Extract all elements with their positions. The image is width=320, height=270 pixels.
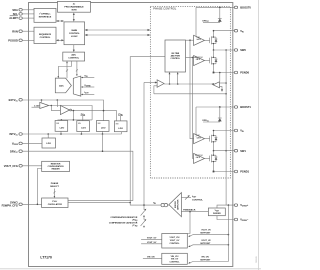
- wire SW sense column vertical: [225, 50, 227, 205]
- node VIN_ON net label: [143, 256, 162, 258]
- svg-text:SCL: SCL: [13, 12, 19, 16]
- wire feedback from error amp to VOUT divider: [181, 211, 208, 213]
- wire bottom gate signal down to phase1 driver: [193, 57, 194, 158]
- pin PGOOD: [8, 38, 22, 42]
- transistor bottom MOSFET M1B: [210, 151, 218, 172]
- switch compensation capacitor CTH: [141, 216, 147, 229]
- pin SW1: [234, 149, 246, 153]
- wire feedback branch down to VOUT UV/OV control: [187, 212, 190, 234]
- label VOUT_OV setpoint: [200, 230, 211, 235]
- svg-text:VIN_OV: VIN_OV: [171, 259, 179, 261]
- wire buffer input: [51, 106, 60, 111]
- junction LDO3 output and drop to DRVCC line: [102, 133, 104, 135]
- junction VIN rail phase 1: [213, 130, 215, 132]
- wire DRVCC to bootstrap diode anode: [203, 21, 220, 23]
- wire enable drop to EN rail: [72, 111, 74, 120]
- wire tap into 2.5V LDO: [47, 134, 49, 138]
- svg-text:PROGRAMMABLE: PROGRAMMABLE: [64, 6, 84, 9]
- svg-text:DIVIDER: DIVIDER: [213, 213, 221, 215]
- svg-text:GATE: GATE: [196, 136, 202, 139]
- wire on-time control feedback vertical: [130, 57, 165, 205]
- wire on-time output to top gate driver phase0: [186, 39, 194, 41]
- wire VDD25 to LDO: [22, 142, 42, 144]
- svg-text:RUN: RUN: [12, 29, 18, 33]
- wire PGOOD to sequence control: [22, 39, 34, 41]
- pin ALERT (active low): [9, 16, 22, 20]
- junction DRVCC at LDO3 drop: [102, 150, 104, 152]
- svg-text:VOUT_OV: VOUT_OV: [170, 240, 180, 242]
- svg-text:7170 BD: 7170 BD: [256, 256, 258, 263]
- svg-text:CONTROL: CONTROL: [170, 262, 181, 264]
- wire VOUT_UV setpoint into control block: [188, 245, 228, 247]
- junction buffer output branch: [73, 110, 75, 112]
- svg-text:LT7170: LT7170: [40, 256, 52, 260]
- wire VOUT divider bottom to VOSNS- pin: [217, 216, 234, 220]
- wire buffer output to current sense amp: [164, 83, 213, 85]
- svg-text:ADC: ADC: [59, 85, 64, 88]
- pin EXTVCC: [9, 98, 23, 103]
- switch compensation resistor RTH: [141, 205, 147, 216]
- op-amp buffer EXTVCC: [60, 105, 69, 114]
- svg-text:BOOST0: BOOST0: [240, 6, 251, 10]
- junction EN rail b1: [61, 119, 63, 121]
- svg-text:CONTROL: CONTROL: [69, 33, 80, 35]
- label VOUT_UV setpoint: [200, 240, 211, 245]
- pin PGND1: [234, 170, 249, 174]
- block on-time and PWM control: [165, 40, 186, 72]
- pin SW0: [234, 48, 246, 52]
- junction LDO2 output: [81, 133, 83, 135]
- svg-text:VIN_ON: VIN_ON: [201, 256, 209, 258]
- block 2x programmable NVM: [58, 1, 91, 12]
- wire current sense feedback into on-time control right arrow: [177, 72, 179, 84]
- wire SYNC to PLL oscillator: [22, 203, 41, 205]
- wire buffer lower input wrap: [154, 86, 157, 94]
- block resistor configuration reader: [42, 161, 70, 171]
- block VOUT UV/OV control: [162, 234, 188, 249]
- wire EN stub into LDO2: [78, 119, 80, 122]
- junction VIN rail phase 0: [213, 30, 215, 32]
- block ADC control: [63, 52, 85, 61]
- wire top gate drive to MOSFET gate: [205, 39, 210, 41]
- page edge line right: [258, 0, 260, 270]
- node VOUT_UV net label: [141, 242, 162, 244]
- wire bottom gate drive to MOSFET gate phase 1: [205, 157, 210, 159]
- junction EXTVCC at comparator: [41, 99, 43, 101]
- pin RUN: [12, 29, 22, 33]
- wire VOUT divider top to VOSNS+ pin: [217, 205, 234, 208]
- pin VOUT_CFG: [4, 164, 23, 168]
- wire ALERT to I2C interface: [22, 17, 34, 19]
- wire comparator minus input reference: [32, 106, 40, 108]
- wire SW1 rail: [214, 150, 235, 152]
- transistor top MOSFET M1T: [210, 131, 218, 151]
- svg-text:LDO: LDO: [46, 143, 51, 145]
- op-amp EXTVCC comparator: [40, 102, 49, 108]
- wire SDA to I2C interface: [22, 9, 34, 11]
- op-amp top gate driver phase 1: [194, 134, 205, 144]
- block PLL oscillator: [42, 198, 68, 208]
- junction bottom gate distribution: [192, 57, 194, 59]
- junction SW1 at MOSFETs: [213, 150, 215, 152]
- block EN LDO 3: [96, 121, 109, 132]
- svg-text:PGND1: PGND1: [240, 170, 249, 174]
- wire DRVCC line across to oscillator column: [22, 151, 133, 200]
- wire VOUT_OV setpoint into control block: [188, 235, 228, 237]
- wire PLL output to compensation node column: [68, 202, 130, 204]
- wire arrow main control to ADC control: [73, 45, 75, 52]
- junction SYNC branch: [37, 204, 39, 206]
- label PVIN above LDO4: [118, 114, 123, 121]
- block I2C/PMBus interface: [34, 8, 56, 22]
- junction sense line a: [169, 83, 171, 85]
- junction EXTVCC at buffer column: [57, 99, 59, 101]
- svg-text:PGND0: PGND0: [240, 71, 249, 75]
- svg-text:INTERFACE: INTERFACE: [39, 16, 52, 19]
- svg-text:VIN_UV/: VIN_UV/: [171, 256, 179, 258]
- svg-text:LDO: LDO: [81, 128, 86, 130]
- svg-text:GATE: GATE: [196, 38, 202, 41]
- pin PGND0: [234, 71, 249, 75]
- wire LDO1 output stub: [60, 131, 62, 134]
- wire ADC control down to ADC converter: [58, 61, 72, 78]
- pin BOOST0: [234, 6, 251, 10]
- wire EXTVCC rail: [22, 100, 103, 121]
- svg-text:LOGIC: LOGIC: [71, 36, 78, 38]
- block EN LDO 1: [55, 121, 68, 132]
- pin VDD25: [12, 142, 22, 147]
- op-amp top gate driver phase 0: [194, 35, 205, 45]
- svg-text:CONTROL: CONTROL: [192, 200, 203, 202]
- svg-text:PLL/: PLL/: [52, 201, 57, 203]
- wire mux input VIN with label: [81, 75, 94, 78]
- svg-text:READER: READER: [52, 167, 61, 170]
- svg-text:FSWPH_CFG: FSWPH_CFG: [2, 204, 18, 208]
- junction setpoint bus UV: [228, 244, 230, 246]
- svg-text:CONTROL: CONTROL: [171, 58, 181, 60]
- wire EN stub into LDO1: [60, 119, 62, 122]
- junction PGND0 tap: [219, 72, 221, 74]
- junction SW1 at sense column: [225, 150, 227, 152]
- svg-text:SETPOINT: SETPOINT: [200, 233, 211, 235]
- wire BOOST1 supply to top gate driver: [195, 107, 197, 135]
- wire sense amp lower input with down arrow: [220, 87, 224, 92]
- wire VIN rail phase 0: [214, 30, 235, 32]
- block LDO 2.5V: [42, 138, 56, 148]
- wire comparator output to EN chain: [49, 106, 92, 120]
- wire PGND1 rail: [214, 171, 235, 173]
- junction EN rail b2: [73, 119, 75, 121]
- op-amp error amplifier: [169, 193, 182, 217]
- svg-text:ALERT: ALERT: [9, 16, 18, 20]
- wire top gate signal down to phase1 driver: [190, 40, 194, 139]
- wire DRVCC to bootstrap diode anode: [203, 121, 220, 123]
- wire comparator plus input from EXTVCC: [41, 100, 43, 102]
- svg-text:VOUT_UV: VOUT_UV: [201, 240, 211, 242]
- svg-text:COMPENSATION RESISTOR: COMPENSATION RESISTOR: [110, 216, 137, 219]
- node VOUT_OV net label: [141, 237, 162, 239]
- wire VIN_ON setpoint into control block: [188, 262, 228, 264]
- wire INTVCC rail with LDO output stubs: [22, 132, 121, 134]
- svg-text:PGOOD: PGOOD: [8, 38, 18, 42]
- wire long arrow phase control to main control upper (bidirectional): [85, 29, 151, 31]
- chip outline LT7170: [29, 3, 233, 267]
- svg-text:LDO: LDO: [101, 128, 106, 130]
- op-amp ADC converter pentagon: [55, 78, 71, 93]
- pin INTVCC: [10, 132, 23, 137]
- page edge line bottom: [0, 268, 261, 270]
- pin VOSNS-: [234, 218, 248, 223]
- pin SDA: [12, 8, 22, 12]
- svg-text:OSCILLATOR: OSCILLATOR: [48, 203, 62, 206]
- wire SYNC branch to resistor configuration reader: [37, 169, 41, 205]
- wire on-time output to bottom gate driver phase0: [186, 57, 198, 59]
- label VIN_ON setpoint: [200, 256, 211, 261]
- junction PLL output at vertical: [129, 202, 131, 204]
- op-amp current sense amplifier: [213, 82, 220, 88]
- op-amp bottom gate driver phase 0: [194, 56, 205, 66]
- wire PGND0 tap into sense amp: [219, 73, 221, 82]
- pin VIN phase1: [234, 129, 244, 134]
- wire bottom gate drive to MOSFET gate phase 0: [205, 60, 210, 62]
- label phase select: [50, 182, 59, 188]
- junction sense return at SW column: [225, 93, 227, 95]
- junction BOOST1 rail at bootstrap diode: [219, 106, 221, 108]
- svg-text:LDO: LDO: [60, 127, 65, 129]
- wire SW0 rail: [214, 49, 235, 51]
- svg-text:LDO: LDO: [118, 128, 123, 130]
- wire top gate drive to MOSFET gate: [205, 138, 210, 140]
- mux trapezoid for ADC inputs: [73, 76, 81, 96]
- svg-text:BOOST1: BOOST1: [240, 105, 251, 109]
- junction feedback branch: [189, 211, 191, 213]
- wire ADC control select to mux: [76, 61, 78, 76]
- pin VOSNS+: [234, 203, 248, 208]
- svg-text:I²C/PMBus: I²C/PMBus: [40, 13, 52, 16]
- wire sense amp upper input from SW column: [220, 82, 227, 84]
- svg-text:VOUT_UV/: VOUT_UV/: [169, 237, 179, 239]
- wire current sense feedback into on-time control left arrow: [169, 72, 171, 84]
- junction ITH node: [143, 204, 145, 206]
- junction sense line b: [177, 83, 179, 85]
- svg-text:CONTROL: CONTROL: [40, 37, 51, 39]
- wire mux input IOUT with label: [81, 92, 94, 95]
- wire phase select arrow into PLL: [53, 189, 55, 199]
- wire long arrow phase control to main control lower (bidirectional): [85, 34, 151, 36]
- wire buffer top feed from EXTVCC: [56, 100, 58, 107]
- transistor top MOSFET M0T: [210, 31, 218, 50]
- block VIN UV/OV control: [162, 253, 188, 264]
- op-amp PWM ramp buffer: [157, 80, 164, 88]
- diode bootstrap DB1: [218, 107, 222, 122]
- svg-text:PHASE CONTROL: PHASE CONTROL: [153, 7, 177, 11]
- pin SYNC/FSWPH_CFG: [2, 200, 23, 207]
- wire current sense amp output line: [144, 82, 157, 84]
- block EN LDO 4: [114, 121, 127, 132]
- pin VIN phase0: [234, 29, 244, 34]
- wire IOUT control into error amp with adjust arrow: [181, 195, 191, 200]
- block main control logic: [64, 22, 85, 45]
- svg-text:SETPOINT: SETPOINT: [200, 259, 211, 261]
- junction BOOST0 rail at bootstrap diode: [219, 7, 221, 9]
- svg-text:CONTROL: CONTROL: [170, 243, 181, 245]
- wire mux input VOSNS with label: [81, 85, 94, 88]
- junction SW0 at sense column: [225, 49, 227, 51]
- label PVIN above LDO2: [81, 114, 86, 121]
- junction VOSNS+ setpoint bus: [228, 204, 230, 206]
- svg-text:VOSNS: VOSNS: [84, 85, 91, 88]
- wire buffer output to LDO enables: [72, 111, 117, 121]
- pin BOOST1: [234, 105, 251, 109]
- svg-text:ADC: ADC: [71, 54, 76, 57]
- wire BOOST1 rail: [196, 106, 234, 108]
- pin SCL: [13, 12, 23, 16]
- svg-text:SW1: SW1: [240, 149, 246, 153]
- junction PGND0: [213, 72, 215, 74]
- pin DRVCC: [10, 149, 22, 154]
- svg-text:SELECT: SELECT: [50, 186, 59, 188]
- block sequence control: [34, 27, 56, 43]
- wire BOOST0 supply to top gate driver: [195, 7, 197, 36]
- wire arrow sequence control to main control (bidirectional): [56, 39, 64, 41]
- svg-text:NVM: NVM: [72, 9, 77, 11]
- wire BOOST0 rail: [196, 6, 234, 8]
- junction setpoint bus OV: [228, 234, 230, 236]
- wire error amp output vertical from sense line: [143, 83, 145, 206]
- label compensation capacitor: [109, 222, 138, 228]
- wire SCL to I2C interface: [22, 13, 34, 15]
- label IOUT control: [192, 196, 203, 201]
- wire drop from INTVCC rail to DRVCC line: [102, 134, 104, 151]
- junction LDO1 output: [60, 133, 62, 135]
- svg-text:MAIN: MAIN: [72, 29, 78, 32]
- wire arrow NVM to main control (bidirectional): [73, 13, 75, 22]
- wire PGND0 rail: [214, 72, 235, 74]
- junction SW sense column upper: [225, 82, 227, 84]
- svg-text:PHASE: PHASE: [51, 182, 59, 185]
- phase control dashed box: [150, 7, 230, 178]
- junction 2.5V LDO input tap: [47, 133, 49, 135]
- wire setpoint bus vertical: [227, 205, 229, 261]
- block VOUT divider: [208, 208, 225, 216]
- junction buffer output at EXTVCC drop: [103, 110, 105, 112]
- svg-text:VOUT_CFG: VOUT_CFG: [4, 164, 18, 168]
- svg-text:SW0: SW0: [240, 48, 246, 52]
- op-amp bottom gate driver phase 1: [194, 153, 205, 163]
- svg-text:COMPENSATION CAPACITOR: COMPENSATION CAPACITOR: [109, 222, 138, 225]
- junction comparator output to buffer input: [51, 105, 53, 107]
- wire sense return line: [154, 93, 226, 95]
- junction SW0 at MOSFETs: [213, 49, 215, 51]
- wire ADC result up into ADC control: [66, 61, 68, 78]
- wire LDO2 output stub: [80, 132, 82, 135]
- wire VIN rail phase 1: [214, 130, 235, 132]
- wire EN rail above LDOs: [58, 119, 93, 121]
- svg-text:CONTROL: CONTROL: [68, 58, 79, 60]
- wire VOUT_CFG to resistor configuration reader: [22, 165, 41, 167]
- current source pair error amp bias: [161, 203, 168, 206]
- wire RUN to sequence control: [22, 30, 34, 32]
- svg-text:SDA: SDA: [12, 8, 18, 12]
- transistor bottom MOSFET M0B: [210, 50, 218, 73]
- wire current source to error amp: [168, 204, 169, 206]
- junction PGND1: [213, 171, 215, 173]
- label compensation resistor: [110, 216, 137, 222]
- block EN LDO 2: [77, 121, 90, 132]
- wire LDO3 output stub: [102, 131, 104, 134]
- wire BOOST1 supply jog to phase1 top gate: [195, 136, 197, 137]
- wire arrow I2C interface to main control (bidirectional): [56, 20, 64, 22]
- junction top gate distribution: [189, 39, 191, 41]
- diode bootstrap DB0: [218, 7, 222, 22]
- svg-text:SEQUENCE: SEQUENCE: [39, 34, 52, 36]
- svg-text:VOUT_OV: VOUT_OV: [201, 230, 211, 232]
